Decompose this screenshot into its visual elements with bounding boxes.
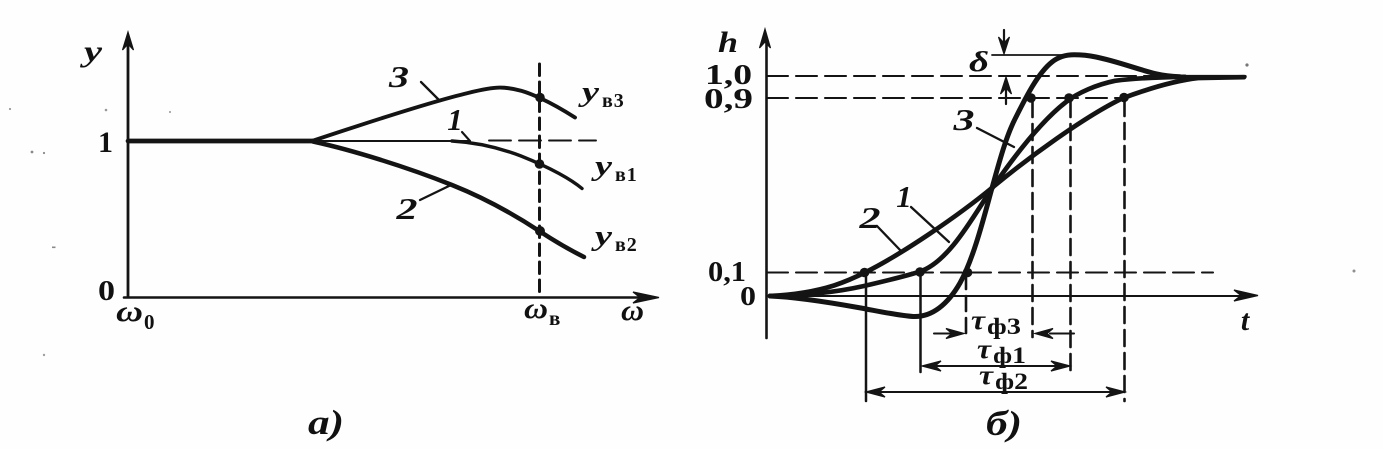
svg-text:3: 3 xyxy=(952,102,974,137)
dot y_v3 xyxy=(535,93,545,103)
svg-text:0: 0 xyxy=(98,275,115,307)
svg-text:ф2: ф2 xyxy=(995,369,1028,394)
dashed y=1 continuation xyxy=(489,140,596,142)
dot y_v2 xyxy=(535,226,545,236)
tau_f3 right arrow xyxy=(1050,332,1074,334)
dot curve2 x 0.1 xyxy=(860,268,870,278)
scan specks xyxy=(9,63,1356,356)
tau_f3 left arrow xyxy=(934,332,956,334)
thick y=1 level segment xyxy=(128,139,316,144)
extension line F (tau_f2 right, dashed) xyxy=(1123,100,1126,401)
pointer from label 1b xyxy=(911,207,949,242)
svg-text:y: y xyxy=(578,77,600,108)
x-axis arrowhead xyxy=(633,292,659,303)
curve 3 xyxy=(312,88,575,141)
svg-text:а): а) xyxy=(308,403,344,442)
svg-text:δ: δ xyxy=(969,47,989,78)
dot curve2 x 0.9 xyxy=(1119,93,1129,103)
t-axis arrowhead xyxy=(1234,290,1258,301)
pointer from label 3 xyxy=(421,82,440,101)
svg-text:в2: в2 xyxy=(615,234,638,256)
curve 1 (middle) xyxy=(770,77,1185,296)
pointer from label 3b xyxy=(977,128,1014,147)
dot curve3 x 0.1 xyxy=(963,268,973,278)
t-axis xyxy=(767,295,1244,297)
dot curve1 x 0.9 xyxy=(1064,93,1074,103)
svg-text:0,9: 0,9 xyxy=(704,84,753,115)
svg-text:h: h xyxy=(718,26,738,59)
extension line E (tau_f1 right, dashed) xyxy=(1069,101,1072,372)
pointer from label 2b xyxy=(877,226,901,251)
svg-text:3: 3 xyxy=(388,59,409,94)
svg-text:τ: τ xyxy=(979,360,994,390)
svg-text:0: 0 xyxy=(740,281,756,311)
svg-text:1: 1 xyxy=(896,179,912,214)
svg-text:y: y xyxy=(591,221,613,252)
svg-text:б): б) xyxy=(986,404,1022,443)
svg-text:τ: τ xyxy=(971,305,986,335)
tau_f1 dimension arrow xyxy=(928,365,1065,367)
dot curve1 x 0.1 xyxy=(915,267,925,277)
svg-text:2: 2 xyxy=(395,191,417,226)
dashed 0.9 level line xyxy=(767,97,1124,99)
dot y_v1 xyxy=(535,159,545,169)
svg-text:в1: в1 xyxy=(615,164,638,186)
svg-text:y: y xyxy=(80,35,103,68)
svg-text:ф3: ф3 xyxy=(987,314,1021,339)
svg-text:ω: ω xyxy=(621,294,644,327)
svg-text:1: 1 xyxy=(98,126,113,159)
extension line D (tau_f3 right, dashed) xyxy=(1031,101,1034,337)
merged 1.0 top line xyxy=(1175,75,1245,78)
dashed 1.0 level line xyxy=(767,75,1245,77)
curve 2 xyxy=(313,142,584,258)
curve 2 (slowest) xyxy=(770,77,1244,296)
thin y=1 continuation xyxy=(312,140,470,142)
pointer from label 1 xyxy=(462,132,470,141)
delta down arrow xyxy=(1003,30,1005,44)
h-axis xyxy=(765,42,768,338)
overshoot peak line xyxy=(992,54,1068,56)
svg-text:в3: в3 xyxy=(602,90,625,112)
y-axis xyxy=(127,44,130,297)
svg-text:y: y xyxy=(591,151,613,182)
svg-text:ω: ω xyxy=(116,295,143,328)
svg-text:ω: ω xyxy=(524,292,548,325)
dashed 0.1 level line xyxy=(767,271,1213,273)
svg-text:в: в xyxy=(549,306,560,330)
x-axis xyxy=(124,296,645,299)
tau_f2 dimension arrow xyxy=(872,391,1119,393)
h-axis arrowhead xyxy=(760,29,771,48)
svg-text:ф1: ф1 xyxy=(993,343,1026,368)
curve 3 (steepest, undershoot + overshoot) xyxy=(770,55,1180,317)
svg-text:1: 1 xyxy=(447,102,463,137)
omega_v dashed vertical xyxy=(538,64,541,294)
extension line B (tau_f1 left) xyxy=(919,274,922,372)
dot curve3 x 0.9 xyxy=(1026,93,1036,103)
extension line C (tau_f3 left, dashed) xyxy=(965,274,968,337)
svg-text:0: 0 xyxy=(144,310,155,334)
delta up arrow xyxy=(1005,87,1007,104)
pointer from label 2 xyxy=(420,185,451,200)
extension line A (tau_f2 left) xyxy=(865,274,868,401)
curve 1 xyxy=(452,141,582,189)
y-axis arrowhead xyxy=(123,32,134,50)
svg-text:2: 2 xyxy=(858,200,880,235)
